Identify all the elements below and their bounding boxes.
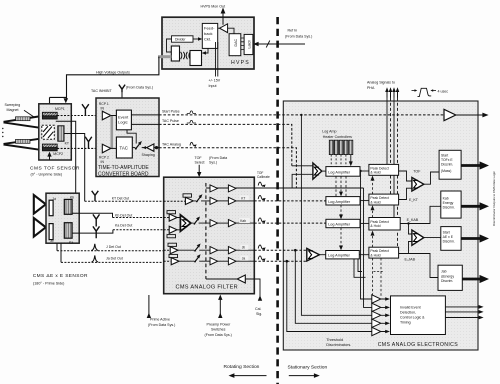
svg-text:Discriminators.: Discriminators. — [326, 343, 351, 347]
svg-text:Invalid Event: Invalid Event — [400, 305, 421, 309]
pickoff symbol MCP2 line — [85, 137, 92, 148]
wire MCP2 signal (dashed) — [57, 147, 102, 149]
svg-text:TAC: TAC — [120, 146, 128, 151]
high voltage thick feed stub — [158, 55, 171, 58]
switch Kab row — [194, 217, 201, 225]
wire log amp3 to peak detect 3 — [360, 222, 369, 224]
svg-text:Rotating Section: Rotating Section — [224, 364, 260, 370]
+/- 15V input wires — [216, 42, 218, 77]
svg-text:Log Amplifier: Log Amplifier — [328, 254, 351, 258]
E_KT label — [409, 198, 419, 202]
wire Ja row out — [236, 260, 254, 262]
dashed stub near Jab discrim — [374, 271, 384, 273]
peak detect and hold 3 box — [369, 218, 400, 231]
svg-text:IN: IN — [101, 160, 105, 164]
svg-text:PHA: PHA — [367, 86, 375, 90]
switch TAC output — [135, 141, 142, 150]
event logic box — [116, 110, 131, 130]
svg-text:(From Data Sys.): (From Data Sys.) — [285, 35, 312, 39]
detector Ka — [64, 223, 72, 239]
start dE x E discrim box — [441, 227, 461, 251]
wave glyph Ja out — [258, 256, 265, 261]
TAC inhibit label — [91, 85, 153, 93]
wire TAC analog dashed to corner — [159, 148, 296, 188]
buffer amp Jb row 1 — [210, 247, 218, 254]
invalid event outputs — [445, 305, 483, 319]
rotating section label — [224, 364, 267, 378]
wire log amp1 to peak detect 1 — [360, 170, 369, 172]
svg-text:& Hold: & Hold — [370, 200, 380, 204]
+/- 15V input label — [209, 79, 221, 88]
svg-text:Feed-: Feed- — [204, 26, 215, 31]
svg-text:Control Logic &: Control Logic & — [400, 315, 425, 319]
grey signal bus TAC board — [111, 116, 114, 149]
switch Ja row — [194, 254, 201, 262]
svg-text:TAC INHIBIT: TAC INHIBIT — [91, 89, 113, 93]
collimator horn lower (TOF) — [4, 139, 39, 150]
wire HV drop into MCP1 with arrow — [47, 97, 52, 109]
svg-text:Sweeping: Sweeping — [5, 103, 21, 107]
wire Kab row dashed to log amp 3 — [254, 222, 326, 224]
buffer amp Ja row 1 — [210, 258, 218, 265]
wire KT det out run — [64, 134, 85, 202]
detector Kb — [64, 199, 72, 214]
threshold discriminators caption — [326, 338, 351, 347]
wire Kb input stub inside filter — [164, 217, 170, 219]
wire Jb input stub inside filter — [164, 249, 171, 251]
TAC pulse label and glyph — [162, 119, 196, 123]
svg-text:TOFx E: TOFx E — [441, 158, 453, 162]
wire KT row to amps — [193, 200, 210, 202]
wire divider feed from transformer — [167, 39, 172, 52]
thick arrow start dE x E output — [461, 234, 489, 242]
preamp Jb row — [168, 243, 178, 254]
svg-text:Stationary Section: Stationary Section — [288, 365, 328, 371]
svg-text:TOF: TOF — [195, 156, 203, 160]
wire Ja det out — [61, 243, 171, 262]
svg-text:CMS ANALOG FILTER: CMS ANALOG FILTER — [176, 284, 239, 290]
wire Ja row — [179, 260, 210, 262]
svg-text:Logic: Logic — [118, 120, 128, 125]
wire start pulse long dashed — [159, 114, 444, 116]
svg-text:MCP2: MCP2 — [53, 152, 63, 156]
svg-text:J Det Out: J Det Out — [106, 245, 121, 249]
wire MCP1 signal (dashed) — [57, 115, 102, 117]
CMS TOF sensor box — [39, 104, 72, 160]
svg-text:TAC Pulse: TAC Pulse — [162, 119, 179, 123]
PHA pulse waveform glyph — [412, 88, 449, 96]
svg-text:Analog Signals to: Analog Signals to — [367, 81, 395, 85]
svg-text:CMS TOF SENSOR: CMS TOF SENSOR — [30, 166, 80, 172]
analog signals to PHA label — [367, 81, 395, 90]
preamp Kab row upper — [167, 211, 177, 222]
log amplifier 4 box — [326, 251, 360, 259]
svg-text:Discrim.: Discrim. — [441, 279, 453, 283]
svg-text:4 usec: 4 usec — [438, 90, 449, 94]
svg-text:Preamp Power: Preamp Power — [207, 322, 232, 326]
svg-text:Jb: Jb — [242, 246, 246, 250]
svg-text:Latch: Latch — [248, 40, 252, 49]
Kab energy discrim box — [441, 191, 461, 218]
svg-text:Calibrate: Calibrate — [257, 175, 270, 179]
svg-text:CMS ΔE x E SENSOR: CMS ΔE x E SENSOR — [33, 273, 88, 279]
switch Jb row — [194, 244, 201, 252]
heater controller elements — [329, 140, 353, 154]
DAC box — [229, 34, 241, 56]
svg-text:Ja Det Out: Ja Det Out — [106, 257, 123, 261]
wire Jb tap down to disc 4 — [295, 250, 372, 323]
wire KT input stub inside filter — [164, 200, 186, 202]
svg-text:Log Amplifier: Log Amplifier — [328, 171, 351, 175]
wire TAC pulse dashed to corner — [159, 124, 292, 165]
sweeping magnet label — [5, 103, 21, 112]
collimator triangle upper (dE x E) — [34, 195, 46, 214]
Kb det out label — [115, 214, 132, 218]
start pulse label and glyph — [162, 110, 196, 114]
summing amp Kab (bold) — [180, 215, 190, 231]
J det out label — [106, 245, 121, 249]
thick arrow Kab energy output — [461, 202, 489, 210]
svg-text:Prime Active: Prime Active — [150, 317, 170, 321]
wire Ka det out — [72, 230, 169, 233]
wire switch to shaping — [142, 146, 147, 149]
wire Kb det out — [72, 213, 169, 217]
svg-text:Ka: Ka — [69, 240, 73, 244]
svg-text:back: back — [204, 31, 212, 36]
amplifier RCP1 — [102, 111, 111, 120]
wire preamps into sum — [177, 218, 180, 230]
buffer amp cal row 2 — [228, 185, 236, 192]
CMS analog electronics caption — [378, 342, 459, 348]
MCP2 bias arrow — [47, 152, 51, 160]
svg-text:+/- 15V: +/- 15V — [209, 79, 221, 83]
svg-text:Discrim.: Discrim. — [443, 240, 455, 244]
svg-text:(180° - Prime Side): (180° - Prime Side) — [33, 282, 64, 286]
preamp power switches label and arrow — [205, 295, 232, 338]
switch KT row — [196, 194, 202, 202]
divider box — [172, 36, 194, 42]
invalid event detection box — [391, 296, 446, 335]
threshold discriminator 4 — [372, 319, 381, 327]
wire divider to feedback ckt — [193, 37, 202, 41]
wire Jb row — [178, 249, 210, 251]
wire cal row tap down to disc 2 — [364, 188, 372, 307]
pickoff symbol MCP1 line — [82, 104, 89, 115]
svg-text:Ja: Ja — [242, 257, 246, 261]
svg-text:Start Pulse: Start Pulse — [162, 110, 180, 114]
wire between KT amps — [218, 200, 229, 202]
wire E_JAB row to sum amp 4 and Jab discrim — [399, 242, 438, 278]
svg-text:Divider: Divider — [175, 38, 186, 42]
peak detect and hold 1 box — [369, 164, 399, 175]
log amplifier 2 box — [326, 197, 360, 205]
svg-text:Detection,: Detection, — [400, 310, 416, 314]
dashed link LA3-LA4 — [339, 228, 343, 251]
svg-text:Jab: Jab — [441, 270, 447, 274]
wire between Jb amps — [218, 249, 229, 251]
svg-text:(0° - Unprime Side): (0° - Unprime Side) — [31, 173, 63, 177]
pickoff symbol Ka line — [93, 226, 100, 238]
wave glyph KT out — [258, 196, 265, 201]
calibration dashed bus — [205, 183, 207, 279]
wire feedback ckt to transformer — [202, 48, 208, 54]
dashed link PD4-PD3 up arrow — [371, 231, 375, 248]
Kab row label patch — [239, 218, 250, 223]
svg-text:& Hold: & Hold — [370, 224, 380, 228]
high voltage outputs label — [96, 71, 130, 75]
dashed link PD2-PD1 up arrow — [371, 176, 375, 195]
heater dashed drops to log amp 1 — [331, 155, 353, 167]
svg-text:Input: Input — [209, 84, 217, 88]
wire TAC inhibit arrow into event logic — [120, 92, 124, 110]
svg-text:Ka Det Out: Ka Det Out — [115, 224, 132, 228]
PHA bus vertical lines — [387, 98, 398, 254]
pickoff symbol Kb line — [93, 214, 100, 226]
wire TOF select arrow into filter — [197, 165, 201, 177]
svg-text:(Mass): (Mass) — [441, 169, 451, 173]
svg-text:TIME-TO-AMPLITUDE: TIME-TO-AMPLITUDE — [98, 165, 149, 171]
CMS dExE sensor box — [46, 193, 79, 244]
wire high voltage outputs run — [50, 57, 159, 100]
svg-text:E_KAB: E_KAB — [407, 218, 419, 222]
svg-text:Log Amp: Log Amp — [322, 130, 336, 134]
summing amp 1 (TOF) — [313, 163, 326, 179]
wire between Kab amps — [218, 222, 229, 224]
peak detect and hold 2 box — [369, 194, 399, 205]
wire Ka input stub inside filter — [164, 229, 170, 231]
KT det out label — [112, 196, 129, 200]
CMS TOF sensor caption — [30, 166, 80, 177]
wire Ja tap down to disc 5 — [287, 261, 372, 331]
preamp Kab row lower — [167, 226, 177, 238]
svg-text:E_KT: E_KT — [409, 198, 419, 202]
svg-text:Magnet: Magnet — [7, 108, 19, 112]
calibration buffer amp (left pointing) — [206, 275, 245, 283]
svg-text:KT: KT — [241, 196, 245, 200]
wire TAC pulse inside board — [131, 123, 159, 125]
svg-text:Kb Det Out: Kb Det Out — [115, 214, 132, 218]
wire start pulse inside board — [131, 114, 159, 116]
svg-text:CMS ANALOG ELECTRONICS: CMS ANALOG ELECTRONICS — [378, 342, 459, 348]
wire TAC to switch — [132, 147, 135, 149]
collimator triangle lower (dE x E) — [34, 218, 46, 237]
Ref In label — [285, 29, 312, 39]
svg-text:Heater Controllers: Heater Controllers — [323, 135, 352, 139]
dashed link LA2-LA3 — [339, 205, 343, 219]
svg-text:MCP1: MCP1 — [55, 107, 65, 111]
svg-text:Timing: Timing — [400, 320, 411, 324]
svg-text:Kab: Kab — [240, 219, 246, 223]
output amplifier start pulse (right) — [444, 109, 489, 120]
buffer amp Kab row 1 — [210, 220, 218, 227]
RCP 2 IN label — [99, 156, 109, 164]
svg-text:Switches: Switches — [211, 328, 226, 332]
wire TOF calibrate row — [206, 187, 254, 189]
wire E_KAB row to Kab discrim — [400, 206, 441, 234]
wire cal sig input — [245, 279, 262, 316]
TAC box — [116, 137, 132, 158]
svg-text:Start: Start — [443, 231, 450, 235]
svg-text:Discrim.: Discrim. — [441, 162, 453, 166]
op-amp buffer (HVPS monitor) — [218, 24, 234, 34]
wire between Ja amps — [218, 260, 229, 262]
wave glyph Jb out — [258, 245, 265, 250]
svg-text:Event: Event — [118, 114, 129, 119]
svg-text:DAC: DAC — [234, 39, 238, 47]
svg-text:CONVERTER BOARD: CONVERTER BOARD — [98, 171, 149, 177]
detector Jb — [49, 224, 53, 240]
Ja det out label — [106, 257, 123, 261]
wire KT row out — [236, 200, 254, 202]
shaping amplifier — [142, 144, 155, 157]
log amp heater controllers label — [322, 130, 352, 139]
dashed link PD3-PD2 up arrow — [371, 205, 375, 217]
wire log amp4 to peak detect 4 — [359, 254, 369, 256]
svg-text:Discriminator Outputs to CMS R: Discriminator Outputs to CMS Rate Logic — [492, 171, 496, 226]
wire HV drop onto sensor box with arrow — [64, 98, 69, 103]
wave glyph TOF calibrate — [258, 182, 265, 187]
svg-text:HVPS Mon Out: HVPS Mon Out — [201, 5, 226, 9]
svg-text:Ckt.: Ckt. — [204, 37, 211, 42]
svg-text:IN: IN — [101, 106, 105, 110]
Jab energy discrim box — [438, 265, 462, 290]
CMS dExE sensor caption — [33, 273, 88, 286]
transformer core hatch — [181, 52, 191, 59]
transformer primary winding — [171, 46, 179, 61]
wire KT row dashed to log amp 2 — [254, 200, 326, 202]
summing amp 3 (TOF x E) — [412, 172, 439, 191]
Ka det out label — [115, 224, 132, 228]
svg-text:E₀JAB: E₀JAB — [405, 258, 416, 262]
buffer amp Ja row 2 — [228, 258, 236, 265]
svg-text:Cal.: Cal. — [255, 307, 261, 311]
svg-text:Log Amplifier: Log Amplifier — [328, 200, 351, 204]
bus ticks DAC-Latch — [241, 38, 244, 49]
stationary section label — [288, 365, 328, 378]
detector Ja — [49, 200, 53, 216]
wire log amp2 to peak detect 2 — [360, 200, 369, 202]
svg-text:(From Data Sys.): (From Data Sys.) — [148, 323, 175, 327]
wire Ja row dashed to sum amp 2 — [254, 260, 306, 263]
E_KAB label — [407, 218, 419, 222]
svg-text:(From Data: (From Data — [209, 156, 227, 160]
summing amp 4 (dE x E) — [412, 230, 441, 245]
svg-text:KT Det Out: KT Det Out — [112, 196, 129, 200]
svg-text:TAC Analog: TAC Analog — [162, 142, 181, 146]
wire E_KT row to sum amp 3 — [399, 188, 412, 199]
KT row label patch — [240, 195, 249, 200]
svg-text:Select: Select — [195, 161, 205, 165]
wire Ja input stub inside filter — [164, 260, 172, 262]
preamp KT row — [183, 194, 193, 205]
wire HV feed down to dE x E sensor — [56, 121, 76, 193]
particle path dots — [2, 128, 3, 137]
wire Kab row out — [236, 222, 254, 224]
wire TOF row to sum amp 3 — [399, 171, 412, 181]
wire amp2 to TAC — [111, 147, 117, 149]
svg-text:ΔE x E: ΔE x E — [443, 235, 454, 239]
spike glyph J line — [92, 244, 99, 251]
svg-text:& Hold: & Hold — [370, 171, 380, 175]
wires discriminators to invalid event box — [381, 297, 390, 333]
wire Jb row out — [236, 249, 254, 251]
buffer amp KT row 1 — [210, 197, 218, 204]
threshold discriminator 1 — [372, 295, 381, 303]
svg-text:(From Data Sys.): (From Data Sys.) — [205, 333, 232, 337]
svg-text:(From Data Sys.): (From Data Sys.) — [126, 85, 153, 89]
MCP2 plate — [42, 144, 57, 151]
svg-text:Kab: Kab — [443, 197, 449, 201]
E_JAB label — [405, 258, 416, 262]
preamp Ja row — [169, 254, 179, 264]
RCP 1 IN label — [99, 102, 109, 110]
wire Kab row to amp — [191, 222, 210, 224]
svg-text:Sys.): Sys.) — [209, 161, 217, 165]
TOF label — [413, 170, 421, 174]
buffer amp Kab row 2 — [228, 220, 236, 227]
svg-text:Ref In: Ref In — [288, 29, 298, 33]
wire TAC pulse corner into sum amp — [292, 165, 313, 167]
wire J det out — [57, 243, 170, 251]
CMS analog filter box — [164, 177, 255, 294]
discriminator outputs vertical caption — [492, 171, 496, 226]
Ref In wire with arrow into latch — [253, 41, 305, 48]
buffer amp Jb row 2 — [228, 247, 236, 254]
MCP1 plate — [42, 112, 57, 119]
magnet pointer line — [24, 110, 34, 117]
buffer amp KT row 2 — [228, 197, 236, 204]
start TOF x E discrim box — [439, 150, 461, 179]
threshold discriminator 3 — [372, 311, 381, 319]
wire TOF row tap down to disc 1 — [359, 170, 372, 299]
pickoff symbol KT det out — [92, 191, 99, 201]
wire amp1 to event logic — [111, 115, 117, 117]
rotating stationary boundary dashed line — [276, 17, 279, 384]
amplifier RCP2 — [102, 144, 111, 153]
thick arrow start TOF x E output — [461, 161, 489, 169]
collimator horn upper (TOF) — [4, 117, 39, 128]
TAC analog label and glyph — [162, 142, 196, 146]
prime active label and arrow — [147, 295, 176, 327]
svg-text:Shaping: Shaping — [142, 153, 155, 157]
dashed links PD4 down to invalid event box — [373, 258, 382, 296]
summing amp 2 (Jab) — [307, 248, 326, 261]
svg-text:Sig.: Sig. — [256, 312, 262, 316]
buffer amp cal row 1 — [210, 185, 218, 192]
pickoff symbol TAC inhibit — [119, 85, 125, 93]
svg-text:TOF: TOF — [413, 170, 421, 174]
KT detector — [58, 126, 70, 146]
threshold discriminator 5 — [372, 327, 381, 335]
wire Jb row dashed to sum amp 2 — [254, 249, 306, 252]
log amplifier 3 box — [326, 219, 360, 227]
Ja row label patch — [240, 256, 248, 261]
HVPS Mon Out label — [201, 5, 226, 9]
spike glyph Ja line — [92, 255, 99, 262]
svg-text:Threshold: Threshold — [326, 338, 343, 342]
svg-text:High Voltage Outputs: High Voltage Outputs — [96, 71, 130, 75]
feedback ckt box — [202, 23, 217, 48]
latch box — [244, 34, 253, 54]
junction dot TAC analog — [154, 146, 159, 149]
log amplifier 1 box — [326, 167, 360, 177]
time-to-amplitude converter board box — [96, 98, 159, 177]
TOF calibrate label — [257, 171, 270, 179]
dashed link LA1-LA2 — [336, 176, 346, 196]
svg-text:Log Amplifier: Log Amplifier — [328, 223, 351, 227]
svg-text:HVPS: HVPS — [231, 60, 250, 66]
svg-text:& Hold: & Hold — [370, 253, 380, 257]
